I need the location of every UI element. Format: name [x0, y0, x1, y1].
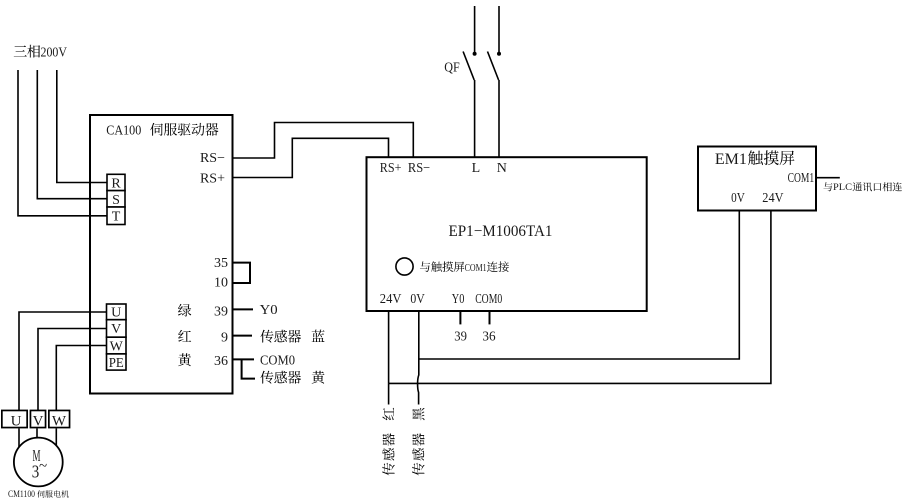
svg-text:0V: 0V [410, 292, 424, 307]
svg-text:200V: 200V [41, 46, 68, 61]
svg-text:T: T [112, 210, 121, 225]
svg-text:Y0: Y0 [452, 292, 465, 307]
svg-text:COM0: COM0 [475, 292, 502, 307]
svg-text:RS−: RS− [408, 161, 430, 176]
svg-text:RS+: RS+ [200, 171, 225, 186]
svg-text:N: N [497, 161, 507, 176]
svg-text:V: V [33, 414, 44, 430]
svg-text:COM1: COM1 [788, 171, 815, 186]
svg-text:39: 39 [454, 330, 467, 345]
svg-text:35: 35 [214, 256, 228, 271]
svg-text:QF: QF [444, 61, 460, 76]
svg-text:R: R [111, 177, 121, 192]
svg-text:CM1100: CM1100 [8, 490, 35, 500]
svg-text:EM1: EM1 [715, 151, 747, 168]
svg-text:W: W [110, 340, 124, 355]
svg-text:RS+: RS+ [380, 161, 402, 176]
svg-text:U: U [111, 306, 121, 321]
svg-text:RS−: RS− [200, 151, 225, 166]
svg-text:S: S [112, 193, 120, 208]
svg-text:Y0: Y0 [260, 303, 278, 318]
svg-text:9: 9 [221, 331, 228, 346]
svg-text:PLC: PLC [833, 183, 852, 193]
svg-text:10: 10 [214, 276, 228, 291]
svg-text:36: 36 [482, 330, 495, 345]
svg-text:PE: PE [109, 356, 124, 371]
svg-text:24V: 24V [380, 292, 402, 307]
svg-text:COM0: COM0 [260, 354, 295, 369]
svg-text:39: 39 [214, 305, 228, 320]
svg-text:L: L [472, 161, 481, 176]
svg-text:EP1−M1006TA1: EP1−M1006TA1 [449, 223, 553, 240]
svg-text:W: W [52, 414, 67, 430]
svg-text:CA100: CA100 [106, 124, 141, 139]
svg-text:0V: 0V [731, 191, 745, 206]
svg-text:COM1: COM1 [465, 262, 487, 274]
svg-text:~: ~ [39, 459, 47, 475]
svg-text:24V: 24V [762, 191, 783, 206]
svg-text:V: V [111, 322, 121, 337]
svg-text:U: U [11, 414, 22, 430]
svg-text:36: 36 [214, 354, 228, 369]
